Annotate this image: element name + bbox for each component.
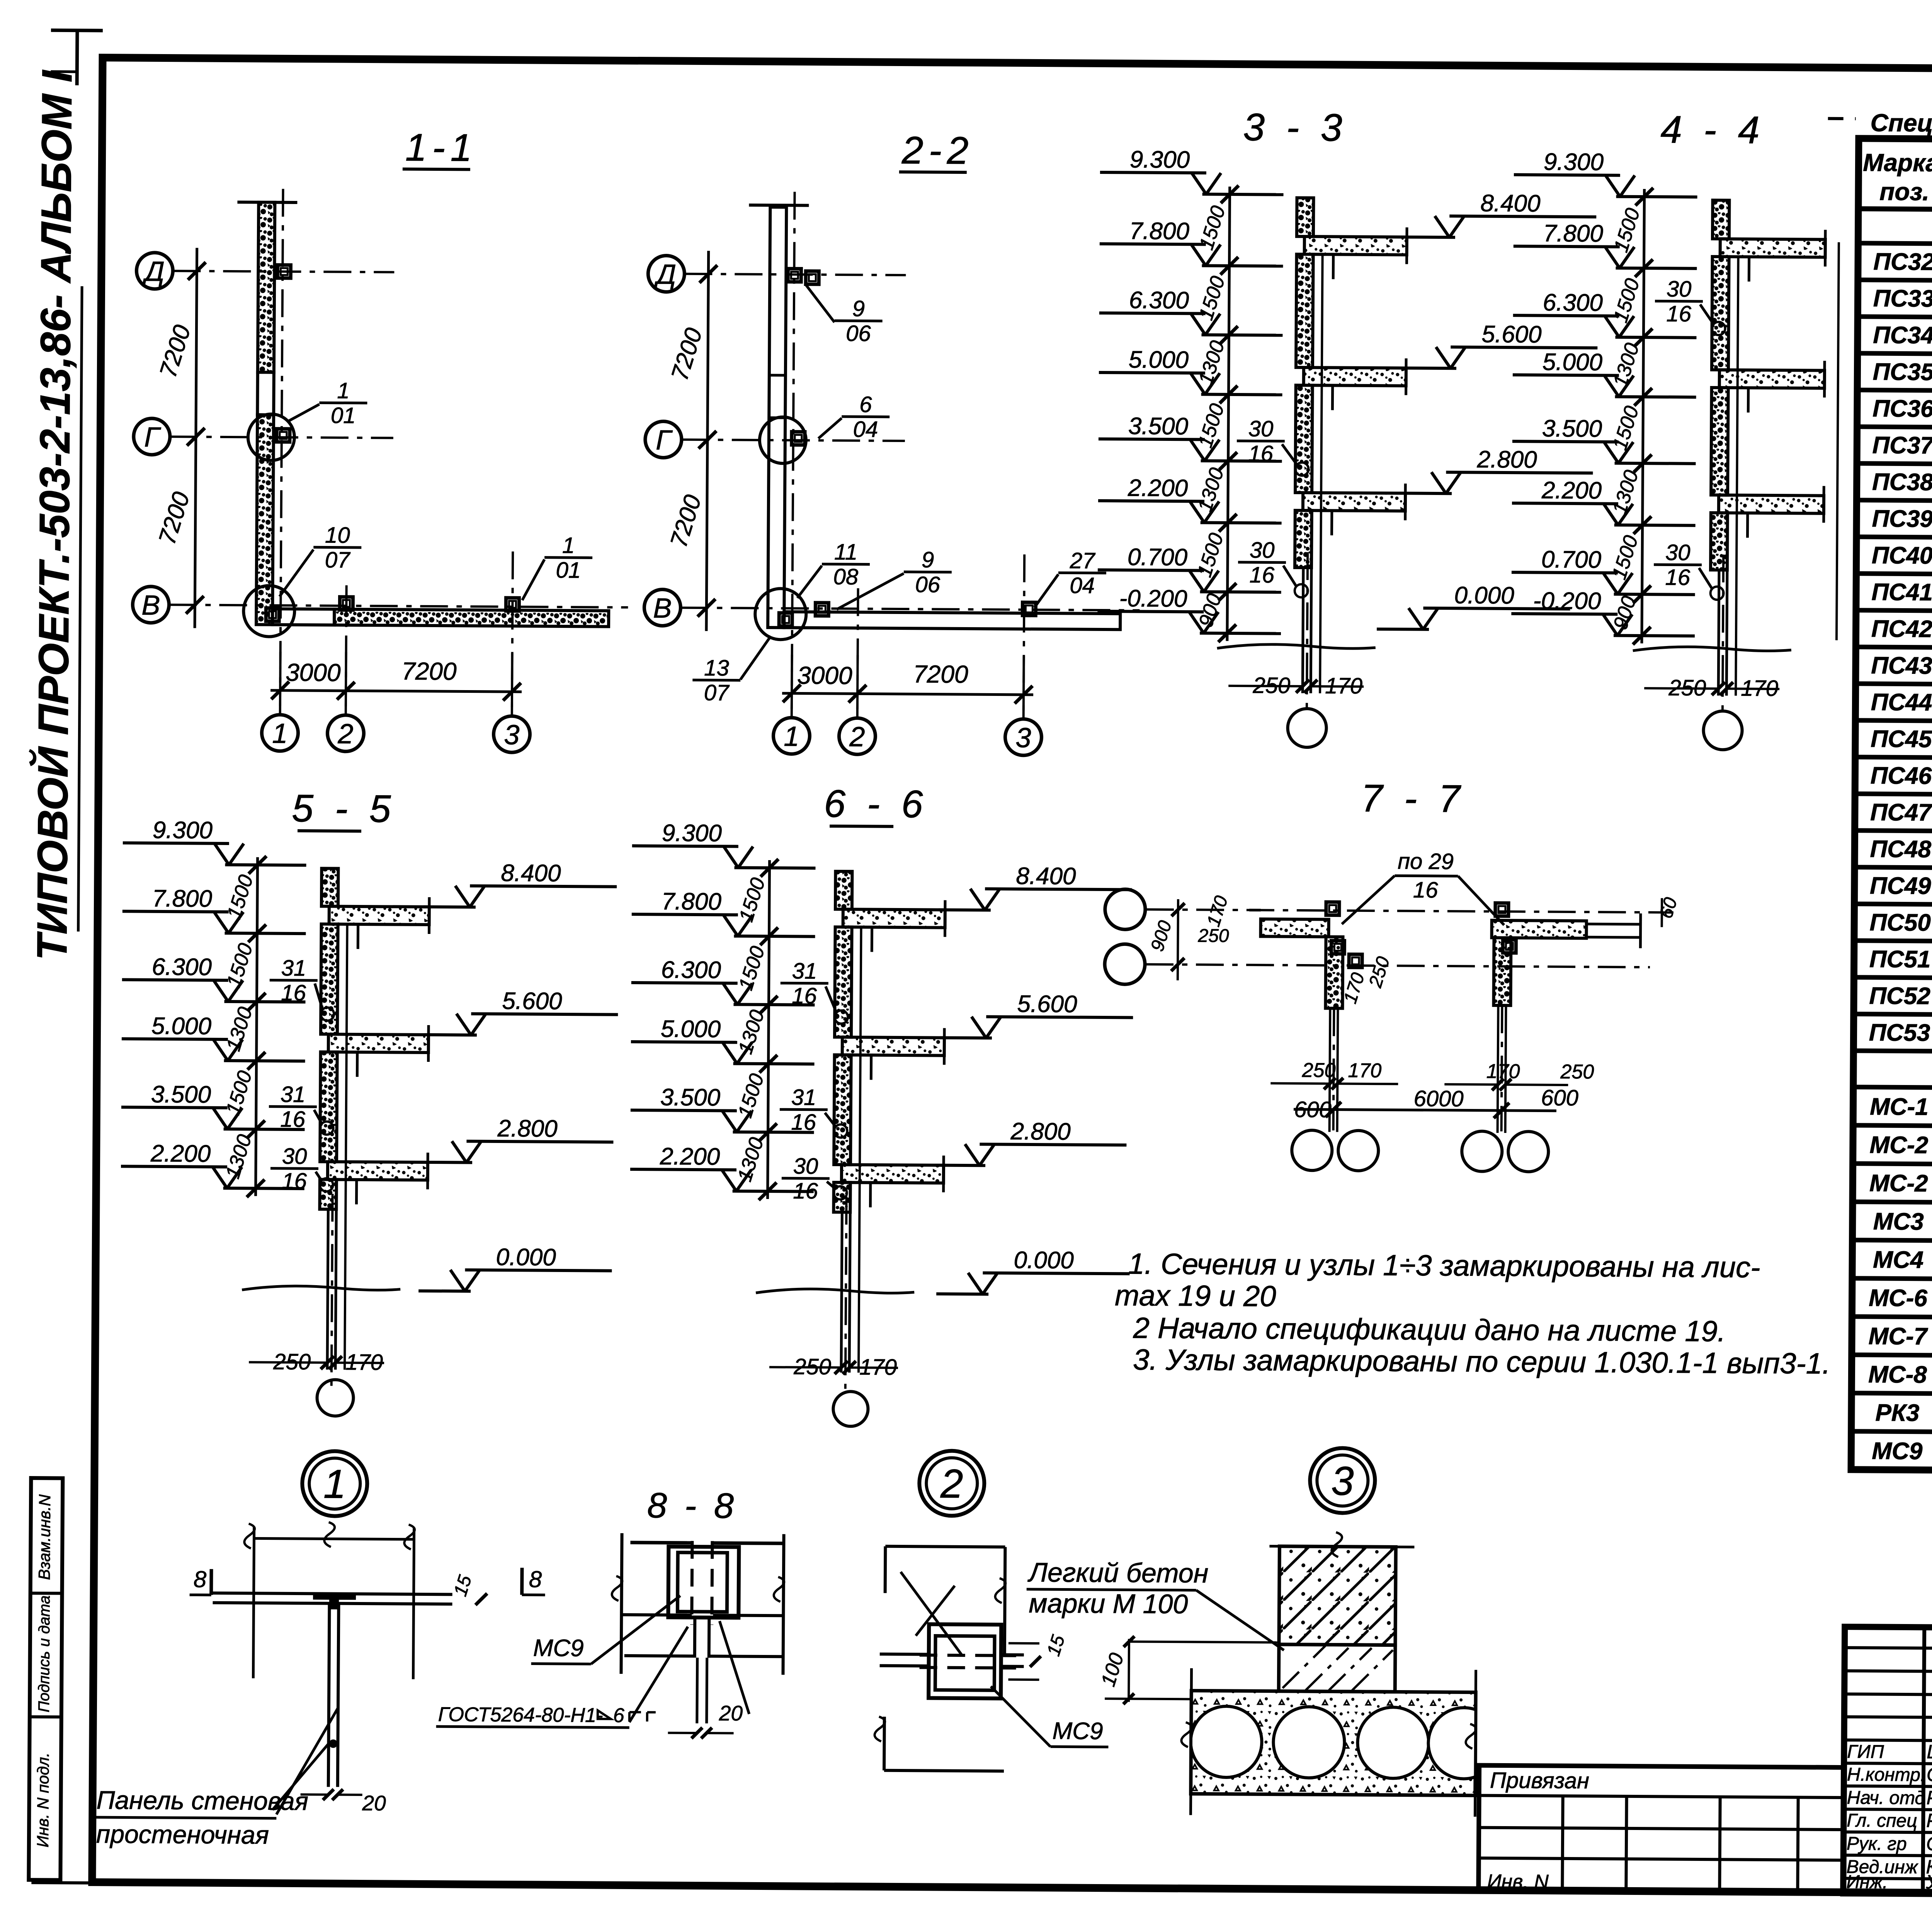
bottom axis circle xyxy=(833,1391,868,1427)
svg-text:7.800: 7.800 xyxy=(1129,218,1190,245)
svg-text:Инв. N подл.: Инв. N подл. xyxy=(34,1752,52,1847)
left dimension line 7200/7200 xyxy=(195,248,197,628)
bottom axis circle xyxy=(317,1379,354,1416)
svg-text:РК3: РК3 xyxy=(1875,1400,1919,1427)
svg-text:2.200: 2.200 xyxy=(660,1143,720,1170)
svg-text:ПС50: ПС50 xyxy=(1869,909,1931,936)
svg-text:ПС39: ПС39 xyxy=(1872,505,1932,532)
svg-text:Розенблат: Розенблат xyxy=(1926,1810,1932,1832)
svg-text:1: 1 xyxy=(272,718,288,749)
svg-text:Нач. отд: Нач. отд xyxy=(1847,1787,1925,1808)
svg-text:ПС38: ПС38 xyxy=(1872,469,1932,496)
vertical wall xyxy=(768,207,786,628)
wall base and axis xyxy=(327,1209,328,1369)
svg-text:8.400: 8.400 xyxy=(1480,190,1541,217)
svg-text:ПС34: ПС34 xyxy=(1873,322,1932,349)
svg-text:ПС49: ПС49 xyxy=(1870,872,1931,900)
svg-text:Д: Д xyxy=(654,259,676,290)
svg-text:Г: Г xyxy=(656,425,673,456)
bottom axis circle xyxy=(1287,709,1327,748)
svg-text:7 - 7: 7 - 7 xyxy=(1361,777,1466,821)
svg-text:900: 900 xyxy=(1147,918,1176,954)
bottom dimension line 3000 7200 xyxy=(782,693,1033,695)
tee stem xyxy=(328,1604,330,1787)
svg-text:1500: 1500 xyxy=(223,940,257,990)
wall stub B xyxy=(1493,938,1511,1005)
svg-text:7200: 7200 xyxy=(401,657,457,685)
svg-text:100: 100 xyxy=(1097,1650,1128,1689)
wall stub A xyxy=(1325,937,1343,1008)
bottom axis circle xyxy=(1703,711,1742,750)
floor slabs xyxy=(843,909,945,928)
floor slabs xyxy=(329,906,429,924)
svg-text:3 - 3: 3 - 3 xyxy=(1243,105,1348,150)
axis circles 7-7 xyxy=(1105,889,1146,930)
svg-text:5.600: 5.600 xyxy=(1017,991,1077,1018)
svg-text:тах 19 и 20: тах 19 и 20 xyxy=(1115,1279,1276,1313)
svg-text:1500: 1500 xyxy=(735,875,770,925)
svg-text:Шульгин: Шульгин xyxy=(1927,1741,1932,1763)
horizontal wall xyxy=(784,612,1120,629)
svg-text:11: 11 xyxy=(834,539,858,565)
svg-text:МС9: МС9 xyxy=(1052,1718,1103,1745)
wall base and axis xyxy=(841,1212,842,1372)
svg-text:15: 15 xyxy=(450,1573,476,1599)
floor slabs xyxy=(1720,239,1825,257)
svg-text:1500: 1500 xyxy=(1609,276,1644,325)
svg-text:0.700: 0.700 xyxy=(1128,544,1188,571)
svg-text:МС9: МС9 xyxy=(1872,1438,1923,1465)
svg-text:16: 16 xyxy=(792,983,817,1009)
svg-text:9.300: 9.300 xyxy=(662,820,722,847)
svg-text:2.800: 2.800 xyxy=(1010,1118,1071,1145)
dimension chain xyxy=(256,857,258,1196)
svg-text:16: 16 xyxy=(1249,562,1275,587)
svg-text:ГИП: ГИП xyxy=(1847,1742,1884,1762)
svg-text:5.600: 5.600 xyxy=(1481,321,1542,348)
node detail bubbles xyxy=(248,414,295,461)
svg-text:8: 8 xyxy=(194,1566,207,1592)
svg-text:04: 04 xyxy=(1070,573,1095,598)
svg-text:9.300: 9.300 xyxy=(1544,149,1604,176)
svg-text:поз.: поз. xyxy=(1879,178,1929,206)
svg-text:4 - 4: 4 - 4 xyxy=(1660,108,1765,152)
svg-text:30: 30 xyxy=(1665,540,1690,565)
svg-text:6: 6 xyxy=(859,392,872,417)
axis circle 2 xyxy=(327,715,364,752)
svg-text:1300: 1300 xyxy=(733,1135,768,1184)
svg-text:ПС41: ПС41 xyxy=(1871,579,1932,606)
svg-text:1: 1 xyxy=(784,721,799,752)
svg-text:по 29: по 29 xyxy=(1398,849,1454,874)
bottom circles 7-7 xyxy=(1292,1130,1332,1171)
svg-text:1500: 1500 xyxy=(223,872,258,922)
axis circle В xyxy=(644,589,681,626)
svg-text:1500: 1500 xyxy=(1610,206,1645,255)
inner wall line xyxy=(1736,255,1738,696)
connection squares 7-7 xyxy=(1326,902,1339,915)
svg-text:Сахновская: Сахновская xyxy=(1927,1764,1932,1786)
svg-text:3000: 3000 xyxy=(286,658,341,687)
small dims left xyxy=(1178,899,1178,980)
svg-text:ПС45: ПС45 xyxy=(1871,726,1932,753)
svg-text:30: 30 xyxy=(1667,276,1692,301)
svg-text:1500: 1500 xyxy=(1195,203,1230,253)
svg-text:6: 6 xyxy=(613,1704,624,1727)
svg-text:1500: 1500 xyxy=(1195,274,1230,323)
svg-text:МС3: МС3 xyxy=(1873,1208,1924,1235)
svg-text:16: 16 xyxy=(1413,878,1439,903)
svg-text:ПС42: ПС42 xyxy=(1871,616,1932,643)
detail circle 2 xyxy=(919,1451,985,1516)
axis dash-dot lines xyxy=(684,274,906,275)
svg-text:Рук. гр: Рук. гр xyxy=(1847,1833,1907,1854)
horizontal wall xyxy=(272,609,334,625)
svg-text:Взам.инв.N: Взам.инв.N xyxy=(35,1494,54,1580)
dimension chain xyxy=(1227,187,1230,641)
leader fractions xyxy=(781,982,828,985)
svg-text:5 - 5: 5 - 5 xyxy=(292,787,396,831)
svg-text:7200: 7200 xyxy=(666,325,707,384)
svg-text:3.500: 3.500 xyxy=(660,1084,721,1111)
svg-text:Панель стеновая: Панель стеновая xyxy=(96,1786,308,1815)
svg-text:3: 3 xyxy=(504,719,520,750)
svg-text:ПС32: ПС32 xyxy=(1873,248,1932,276)
bottom dimension line 3000 7200 xyxy=(270,690,522,692)
svg-text:5.000: 5.000 xyxy=(1129,346,1189,373)
svg-text:27: 27 xyxy=(1070,548,1096,573)
svg-text:1300: 1300 xyxy=(221,1132,256,1181)
svg-text:16: 16 xyxy=(1665,565,1690,590)
svg-text:01: 01 xyxy=(556,558,581,583)
svg-text:МС-2: МС-2 xyxy=(1869,1132,1928,1159)
dimension chain xyxy=(1642,189,1645,643)
svg-text:МС9: МС9 xyxy=(533,1635,584,1662)
svg-text:2: 2 xyxy=(337,719,354,750)
svg-text:600: 600 xyxy=(1541,1085,1578,1111)
svg-text:31: 31 xyxy=(791,1085,816,1110)
svg-text:ПС48: ПС48 xyxy=(1870,836,1931,863)
svg-text:Легкий бетон: Легкий бетон xyxy=(1027,1557,1209,1588)
svg-text:ТИПОВОЙ ПРОЕКТ.-503-2-13,86-: ТИПОВОЙ ПРОЕКТ.-503-2-13,86- АЛЬБОМ I xyxy=(28,70,81,961)
leader fractions xyxy=(1655,300,1703,303)
svg-text:8 - 8: 8 - 8 xyxy=(647,1486,738,1526)
svg-text:2: 2 xyxy=(849,721,865,752)
svg-text:3: 3 xyxy=(1015,723,1031,753)
detail 1: wall panel tee junction xyxy=(254,1538,414,1539)
svg-text:08: 08 xyxy=(833,564,858,589)
svg-text:МС-7: МС-7 xyxy=(1869,1323,1928,1350)
svg-text:8: 8 xyxy=(529,1566,542,1592)
signature table xyxy=(1923,1627,1924,1894)
svg-text:МС-8: МС-8 xyxy=(1868,1361,1927,1388)
svg-text:1500: 1500 xyxy=(1194,401,1229,451)
svg-text:5.000: 5.000 xyxy=(661,1015,721,1043)
svg-text:3.500: 3.500 xyxy=(1542,415,1602,442)
svg-text:9.300: 9.300 xyxy=(1130,146,1190,173)
svg-text:3.500: 3.500 xyxy=(151,1081,211,1108)
vertical wall xyxy=(258,202,275,372)
svg-text:1300: 1300 xyxy=(1608,468,1643,517)
table grid xyxy=(1851,138,1932,1474)
svg-text:Солей: Солей xyxy=(1926,1833,1932,1855)
svg-text:7.800: 7.800 xyxy=(1543,220,1604,247)
svg-text:МС4: МС4 xyxy=(1873,1247,1923,1274)
svg-text:ПС51: ПС51 xyxy=(1869,946,1931,973)
svg-text:Инж.: Инж. xyxy=(1846,1872,1888,1893)
svg-text:Н.контр.: Н.контр. xyxy=(1847,1764,1926,1785)
svg-text:1300: 1300 xyxy=(222,1004,257,1054)
svg-text:3: 3 xyxy=(1331,1458,1354,1503)
svg-text:16: 16 xyxy=(282,1168,307,1194)
svg-text:16: 16 xyxy=(280,1107,306,1132)
svg-text:250: 250 xyxy=(1365,954,1394,990)
svg-text:7.800: 7.800 xyxy=(662,888,722,915)
svg-text:Инв. N: Инв. N xyxy=(1487,1871,1549,1893)
svg-text:600: 600 xyxy=(1294,1097,1332,1122)
svg-text:марки М 100: марки М 100 xyxy=(1029,1588,1188,1619)
axis circle 1 xyxy=(773,718,810,754)
wall base and axis xyxy=(1303,568,1303,693)
svg-text:ПС43: ПС43 xyxy=(1871,652,1932,679)
svg-text:1500: 1500 xyxy=(1609,403,1643,453)
svg-text:3000: 3000 xyxy=(797,661,852,689)
svg-text:31: 31 xyxy=(792,958,817,983)
svg-text:6.300: 6.300 xyxy=(661,956,721,983)
wall panels xyxy=(321,868,338,906)
leader fractions xyxy=(1237,440,1285,443)
svg-text:250: 250 xyxy=(1197,925,1229,946)
sheet bottom edge xyxy=(31,1883,250,1884)
title block outer xyxy=(1843,1627,1932,1898)
svg-text:3. Узлы замаркированы по с: 3. Узлы замаркированы по серии 1.030.1-1… xyxy=(1133,1343,1830,1380)
svg-text:6.300: 6.300 xyxy=(1543,289,1603,316)
wall panels xyxy=(835,871,852,909)
svg-text:15: 15 xyxy=(1043,1633,1069,1658)
svg-text:ПС40: ПС40 xyxy=(1872,542,1932,569)
axis circle Г xyxy=(645,421,682,458)
joint channels xyxy=(668,1547,739,1618)
svg-text:6.300: 6.300 xyxy=(152,954,212,981)
axis circle 2 xyxy=(839,718,876,755)
svg-text:16: 16 xyxy=(281,980,306,1005)
axis circle Г xyxy=(134,418,170,455)
svg-text:1: 1 xyxy=(323,1461,346,1507)
svg-text:2 Начало спецификации дано: 2 Начало спецификации дано на листе 19. xyxy=(1133,1311,1726,1348)
wall panels xyxy=(1713,200,1730,239)
svg-text:В: В xyxy=(141,590,160,621)
svg-text:0.000: 0.000 xyxy=(1014,1247,1074,1274)
svg-text:7200: 7200 xyxy=(665,492,707,551)
svg-text:ПС53: ПС53 xyxy=(1869,1019,1930,1046)
detail 3: column on hollow-core slab xyxy=(1269,1546,1414,1547)
detail 2: horizontal panel joint xyxy=(885,1546,1005,1547)
svg-text:-0.200: -0.200 xyxy=(1533,587,1601,614)
tee weld plate xyxy=(313,1593,355,1609)
inner wall line xyxy=(345,923,347,1370)
left margin stamp boxes xyxy=(29,1478,63,1880)
svg-text:20: 20 xyxy=(362,1791,386,1815)
svg-text:2.200: 2.200 xyxy=(150,1140,211,1167)
svg-text:16: 16 xyxy=(1666,301,1692,327)
svg-text:20: 20 xyxy=(719,1701,743,1725)
svg-text:Г: Г xyxy=(144,422,161,453)
svg-text:Гл. спец: Гл. спец xyxy=(1847,1810,1917,1831)
svg-text:900: 900 xyxy=(1194,591,1226,630)
svg-text:ПС35: ПС35 xyxy=(1873,359,1932,386)
svg-text:1500: 1500 xyxy=(735,944,769,993)
svg-text:16: 16 xyxy=(791,1110,816,1135)
svg-text:6.300: 6.300 xyxy=(1129,287,1189,314)
axis circle В xyxy=(133,587,169,623)
inner wall line xyxy=(859,926,861,1372)
axis circle 3 xyxy=(493,716,530,753)
svg-text:30: 30 xyxy=(1248,416,1274,441)
left slab piece xyxy=(1260,919,1328,937)
svg-text:06: 06 xyxy=(915,572,940,597)
svg-text:5.600: 5.600 xyxy=(502,988,562,1015)
svg-text:МС-2: МС-2 xyxy=(1869,1170,1928,1197)
svg-text:Усиков.: Усиков. xyxy=(1925,1871,1932,1893)
svg-text:МС-1: МС-1 xyxy=(1870,1094,1929,1121)
svg-text:ПС47: ПС47 xyxy=(1870,799,1932,826)
svg-text:2.200: 2.200 xyxy=(1128,474,1188,502)
svg-text:1500: 1500 xyxy=(222,1068,257,1117)
svg-text:7200: 7200 xyxy=(155,322,196,381)
connection squares xyxy=(277,265,291,278)
svg-text:1: 1 xyxy=(337,378,350,403)
bottom dim 600 6000 600 xyxy=(1294,1109,1556,1111)
svg-text:Рубан: Рубан xyxy=(1927,1787,1932,1809)
svg-text:1500: 1500 xyxy=(1608,533,1643,582)
svg-text:1300: 1300 xyxy=(1609,340,1644,390)
svg-text:0.000: 0.000 xyxy=(496,1244,556,1271)
leader fractions xyxy=(270,979,318,982)
svg-text:Привязан: Привязан xyxy=(1490,1768,1589,1793)
axis circle Д xyxy=(648,255,685,292)
svg-text:6 - 6: 6 - 6 xyxy=(824,782,929,826)
wall panels xyxy=(1297,198,1314,236)
svg-text:7.800: 7.800 xyxy=(152,885,213,912)
svg-text:31: 31 xyxy=(281,956,306,981)
right slab piece xyxy=(1492,920,1586,938)
svg-text:2-2: 2-2 xyxy=(901,129,974,172)
svg-text:Подпись и дата: Подпись и дата xyxy=(36,1595,53,1713)
svg-text:простеночная: простеночная xyxy=(96,1820,269,1849)
joint below xyxy=(693,1617,697,1658)
svg-text:ПС33: ПС33 xyxy=(1873,285,1932,312)
stub extension lines down xyxy=(1330,1008,1330,1132)
svg-text:ПС37: ПС37 xyxy=(1872,432,1932,459)
svg-text:-0.200: -0.200 xyxy=(1119,585,1187,612)
inner wall line xyxy=(1320,253,1323,693)
svg-text:10: 10 xyxy=(325,522,350,548)
svg-text:07: 07 xyxy=(704,680,730,705)
svg-text:ПС44: ПС44 xyxy=(1871,689,1932,716)
svg-text:1300: 1300 xyxy=(734,1007,769,1057)
svg-text:30: 30 xyxy=(1250,537,1275,563)
svg-text:16: 16 xyxy=(1248,441,1274,466)
svg-text:МС-6: МС-6 xyxy=(1869,1285,1927,1312)
svg-text:9: 9 xyxy=(852,296,865,321)
axis circle 1 xyxy=(262,714,298,751)
axis dash-dot lines xyxy=(173,271,394,272)
svg-text:5.000: 5.000 xyxy=(1543,349,1603,376)
svg-text:2.200: 2.200 xyxy=(1541,477,1602,504)
svg-text:13: 13 xyxy=(704,655,729,680)
left dimension line 7200/7200 xyxy=(706,251,709,631)
wall base and axis xyxy=(1718,570,1719,696)
svg-text:170: 170 xyxy=(1203,893,1232,929)
svg-text:2: 2 xyxy=(940,1461,963,1507)
svg-text:1300: 1300 xyxy=(1194,338,1229,388)
svg-text:3.500: 3.500 xyxy=(1128,413,1189,440)
joint connector square xyxy=(929,1624,1001,1698)
svg-text:Марка.: Марка. xyxy=(1863,148,1932,177)
svg-text:9: 9 xyxy=(922,547,934,572)
axis circle 3 xyxy=(1005,719,1042,756)
svg-text:170: 170 xyxy=(1348,1060,1381,1082)
title block attachment part left xyxy=(1478,1765,1844,1893)
svg-text:8.400: 8.400 xyxy=(1016,863,1076,890)
svg-text:0.700: 0.700 xyxy=(1541,546,1602,573)
svg-text:2.800: 2.800 xyxy=(1476,446,1537,473)
svg-text:1500: 1500 xyxy=(1193,531,1228,580)
svg-text:1. Сечения и узлы 1÷3 замарки: 1. Сечения и узлы 1÷3 замаркированы на л… xyxy=(1128,1247,1760,1284)
leader fractions xyxy=(835,319,883,322)
svg-text:1: 1 xyxy=(562,533,575,558)
node detail bubbles xyxy=(760,417,806,464)
svg-text:5.000: 5.000 xyxy=(151,1013,212,1040)
svg-text:9.300: 9.300 xyxy=(153,817,213,844)
svg-text:250: 250 xyxy=(1560,1061,1594,1083)
floor slabs xyxy=(1304,236,1407,255)
svg-text:1500: 1500 xyxy=(734,1071,769,1121)
svg-text:250: 250 xyxy=(1302,1059,1336,1082)
svg-text:1-1: 1-1 xyxy=(405,126,478,170)
svg-text:1300: 1300 xyxy=(1194,465,1228,515)
svg-text:60: 60 xyxy=(1656,895,1682,921)
svg-text:7200: 7200 xyxy=(913,660,968,688)
svg-text:7200: 7200 xyxy=(154,489,195,548)
svg-text:ПС52: ПС52 xyxy=(1869,983,1930,1010)
svg-text:В: В xyxy=(653,593,672,624)
svg-text:01: 01 xyxy=(331,403,356,428)
detail circle 3 xyxy=(1310,1448,1375,1513)
svg-text:16: 16 xyxy=(793,1179,818,1204)
svg-text:900: 900 xyxy=(1609,594,1640,632)
svg-text:04: 04 xyxy=(853,417,878,442)
svg-text:30: 30 xyxy=(282,1144,307,1169)
svg-text:06: 06 xyxy=(846,321,871,346)
connection squares xyxy=(788,269,801,282)
svg-text:ПС46: ПС46 xyxy=(1871,762,1932,789)
leader fractions xyxy=(319,401,367,405)
svg-text:30: 30 xyxy=(793,1153,818,1179)
axis circle Д xyxy=(136,253,173,289)
detail circle 1 xyxy=(302,1451,367,1516)
svg-text:ПС36: ПС36 xyxy=(1872,395,1932,422)
svg-text:ГОСТ5264-80-Н1-: ГОСТ5264-80-Н1- xyxy=(438,1703,603,1726)
svg-text:8.400: 8.400 xyxy=(501,860,561,887)
svg-text:0.000: 0.000 xyxy=(1454,582,1514,609)
svg-text:31: 31 xyxy=(281,1082,306,1107)
svg-text:6000: 6000 xyxy=(1413,1086,1463,1112)
svg-text:2.800: 2.800 xyxy=(497,1115,558,1142)
svg-text:07: 07 xyxy=(325,548,351,573)
svg-text:Д: Д xyxy=(142,256,165,287)
dimension chain xyxy=(768,860,770,1199)
